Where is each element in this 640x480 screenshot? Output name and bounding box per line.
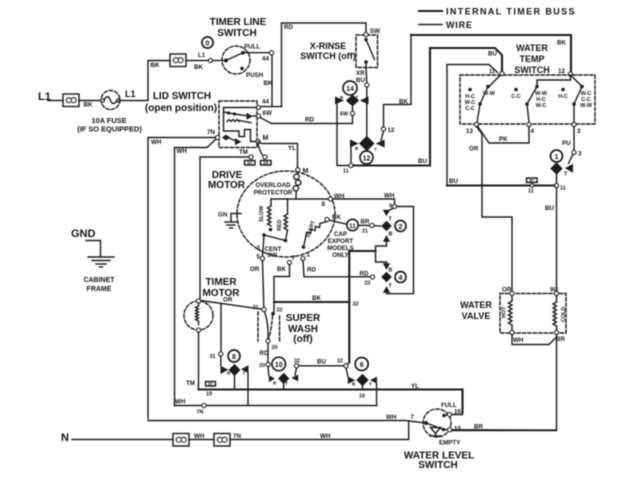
svg-text:SWITCH (off): SWITCH (off) (300, 51, 355, 61)
svg-text:12: 12 (388, 127, 395, 134)
regular winding (277, 199, 288, 242)
svg-text:TM: TM (186, 380, 195, 387)
svg-text:VALVE: VALVE (462, 311, 491, 321)
water valve (dashed box) (500, 294, 566, 334)
svg-text:MOTOR: MOTOR (202, 288, 240, 299)
svg-text:3: 3 (257, 245, 261, 252)
motor ground (218, 212, 241, 229)
svg-text:9U: 9U (550, 287, 558, 294)
svg-text:OVERLOAD: OVERLOAD (255, 182, 291, 189)
wire YL lid M to drive motor (258, 142, 298, 169)
connector 8 (221, 350, 249, 376)
wire PK 13 to 4 (478, 126, 530, 143)
svg-text:2: 2 (399, 224, 403, 231)
svg-text:(IF SO EQUIPPED): (IF SO EQUIPPED) (77, 125, 142, 134)
svg-text:12: 12 (363, 155, 371, 162)
svg-text:7: 7 (411, 414, 415, 421)
svg-text:B: B (389, 232, 393, 238)
svg-text:WIRE: WIRE (446, 20, 473, 30)
wire PU from 3 down to connector 1 (573, 127, 575, 151)
wire W-W contact feed to lower BU bus (447, 65, 498, 185)
timer motor (dashed circle with coil) (184, 299, 213, 332)
wire 44 down from timer line switch (271, 55, 273, 107)
svg-text:T: T (374, 147, 377, 152)
svg-text:INTERNAL TIMER BUSS: INTERNAL TIMER BUSS (446, 7, 576, 17)
svg-text:6: 6 (360, 362, 364, 369)
svg-text:RD: RD (260, 350, 269, 357)
svg-text:C-C: C-C (511, 94, 521, 100)
wire conn10 right to 32 circle (295, 368, 297, 375)
wire WH motor 8 to connector 2 (333, 199, 395, 205)
svg-text:TIMER LINE: TIMER LINE (210, 17, 267, 28)
svg-text:RED: RED (277, 220, 283, 231)
svg-text:YL: YL (411, 383, 419, 390)
wire stem down to 31 circle (220, 304, 222, 353)
wire WH from lid switch left down (148, 138, 216, 419)
svg-text:B: B (389, 268, 393, 274)
svg-text:WH: WH (175, 399, 186, 406)
svg-text:3: 3 (578, 151, 582, 158)
lid switch internal contacts (222, 108, 257, 146)
svg-text:COLD: COLD (561, 307, 567, 322)
svg-text:HOT: HOT (502, 306, 508, 318)
wire OR from 13 down to water valve (477, 127, 513, 292)
water valve OR terminal (510, 292, 514, 296)
svg-text:SLOW: SLOW (259, 205, 265, 222)
svg-text:BK: BK (399, 99, 408, 106)
svg-text:L1: L1 (125, 89, 136, 99)
svg-text:WATER: WATER (516, 43, 548, 53)
connector 1 (550, 150, 573, 178)
wire conn1 stem to 11 junction (556, 175, 558, 184)
svg-text:M: M (263, 135, 269, 142)
svg-text:FRAME: FRAME (87, 286, 112, 293)
svg-text:T: T (285, 381, 288, 386)
overload protector (254, 172, 301, 199)
motor 1 terminal (301, 257, 305, 261)
svg-text:20: 20 (259, 363, 265, 369)
wire BU down to water valve (556, 188, 558, 292)
legend internal timer buss (419, 7, 576, 17)
wire conn6 diamond stem to bus (362, 386, 364, 389)
temp switch section 1 (465, 85, 496, 135)
svg-text:WH: WH (320, 433, 331, 440)
svg-text:BK: BK (332, 214, 341, 221)
fuse F1 10A (dashed circle) (101, 91, 120, 110)
lid switch terminal 6W (257, 114, 261, 118)
svg-text:MOTOR: MOTOR (208, 180, 246, 191)
svg-text:6W: 6W (340, 111, 349, 117)
wire 31 circle to conn8 (220, 356, 222, 366)
wire conn14 left stem to BU bus (337, 105, 350, 166)
svg-text:BK: BK (264, 80, 273, 87)
lid switch terminal 7N (216, 136, 220, 140)
svg-text:4: 4 (399, 275, 403, 282)
cam code box 3S (261, 160, 272, 165)
svg-text:11: 11 (349, 223, 356, 230)
centrifugal switch (257, 233, 286, 260)
svg-text:0: 0 (206, 41, 210, 48)
svg-text:3S: 3S (263, 160, 269, 165)
wire BU 32 to 32 (299, 365, 345, 367)
slow winding (259, 199, 272, 231)
BU bus horizontal at y185 (447, 184, 555, 186)
N line continues to level switch (189, 439, 214, 441)
svg-text:5: 5 (257, 254, 261, 261)
legend wire (419, 20, 473, 30)
svg-text:W-C: W-C (536, 103, 547, 109)
wire L1 riser to timer line switch (119, 61, 170, 101)
BU bus from 11 junction up to water temp 11 (353, 48, 502, 166)
svg-text:OR: OR (223, 297, 233, 304)
svg-text:GND: GND (71, 228, 96, 240)
connector 14 (335, 81, 369, 106)
wire OR timer motor to super wash 31 (201, 301, 265, 310)
svg-text:W-W: W-W (580, 103, 593, 109)
svg-text:SWITCH: SWITCH (418, 460, 457, 471)
svg-text:EXPORT: EXPORT (328, 238, 354, 245)
svg-text:T: T (356, 95, 359, 100)
svg-text:SWITCH: SWITCH (514, 65, 550, 75)
cold valve solenoid (553, 296, 567, 335)
svg-text:SW: SW (370, 28, 380, 35)
svg-text:20: 20 (272, 345, 278, 351)
svg-text:GN: GN (218, 212, 228, 219)
wire RD super wash 20 down (267, 343, 269, 363)
inline connector plug before timer line switch (170, 54, 186, 67)
svg-text:7N: 7N (207, 129, 215, 136)
svg-text:CAP: CAP (334, 231, 347, 238)
wire 16 riser connecting (452, 413, 463, 415)
wire branch to BK riser (349, 251, 375, 363)
lid switch (dashed box) (219, 101, 257, 148)
wire BK riser to conn6 (347, 363, 349, 365)
wire RD from motor 1 to connector 4 (303, 261, 371, 277)
inline connector plug on L1 (63, 94, 79, 107)
svg-text:CABINET: CABINET (83, 277, 115, 284)
connector 12 (350, 136, 385, 164)
cam code box on TM bus (206, 381, 216, 386)
svg-text:WATER: WATER (460, 300, 492, 310)
lid switch terminal 44 (257, 106, 261, 110)
svg-text:31: 31 (210, 354, 216, 360)
svg-text:PK: PK (499, 136, 508, 143)
svg-text:RD: RD (305, 117, 314, 124)
svg-text:PULL: PULL (244, 44, 260, 51)
svg-text:OR: OR (469, 146, 479, 153)
svg-text:M: M (303, 168, 309, 175)
WH line 7N (175, 405, 377, 407)
svg-text:XR: XR (356, 70, 365, 77)
svg-text:44: 44 (262, 56, 269, 63)
svg-text:BU: BU (418, 158, 427, 165)
svg-text:11: 11 (528, 189, 534, 195)
svg-text:16: 16 (359, 394, 365, 400)
wire to L1 terminal (186, 60, 208, 62)
wire RD from lid 6W to conn14 (260, 116, 353, 124)
BK bus horizontal (274, 301, 349, 303)
GND symbol (71, 228, 114, 267)
svg-text:15: 15 (454, 426, 461, 433)
connector 6 (348, 358, 377, 387)
wire 32 circle into conn6 (346, 368, 348, 377)
wire conn6 T stem down to WH line (376, 384, 378, 406)
svg-text:TEMP: TEMP (519, 54, 544, 64)
svg-text:7: 7 (292, 255, 296, 262)
wire conn12 left stem to 11 junction (350, 148, 352, 164)
svg-text:X-RINSE: X-RINSE (310, 41, 347, 51)
svg-text:H-C: H-C (558, 94, 568, 100)
start winding (302, 218, 329, 249)
cam code box 3C on BU bus (527, 178, 538, 183)
svg-text:BK: BK (194, 64, 203, 71)
wire XR BU down to connector 12 (365, 68, 368, 83)
svg-text:8: 8 (232, 354, 236, 361)
svg-text:BU: BU (356, 77, 365, 84)
wire conn12 right to 12 terminal and BK riser (381, 131, 384, 141)
svg-text:10: 10 (275, 362, 283, 369)
svg-text:RD: RD (360, 271, 369, 278)
svg-text:BU: BU (317, 359, 326, 366)
svg-text:7N: 7N (197, 410, 204, 416)
wire 20 circle into conn10 (267, 367, 270, 376)
svg-text:3C: 3C (247, 160, 254, 165)
svg-text:BK: BK (277, 266, 286, 273)
svg-text:PROTECTOR: PROTECTOR (254, 190, 293, 197)
svg-text:6W: 6W (263, 110, 272, 117)
wire conn8 diamond stem to bus (234, 376, 236, 389)
svg-text:EMPTY: EMPTY (439, 440, 461, 447)
wire WH hot valve join (512, 335, 557, 345)
neutral line from lid WH to level switch pivot (148, 421, 426, 424)
connector 2 (381, 210, 406, 242)
svg-text:RD: RD (284, 24, 293, 31)
svg-text:14: 14 (346, 86, 354, 93)
svg-text:BU: BU (449, 178, 458, 185)
svg-text:19: 19 (206, 392, 212, 398)
connector 11 (capacitor plug) (347, 219, 358, 230)
svg-text:3: 3 (577, 128, 581, 135)
svg-text:RD: RD (307, 267, 316, 274)
svg-text:BU: BU (488, 51, 497, 58)
svg-text:PUSH: PUSH (246, 72, 264, 79)
wire right bracket conn2 top to conn4 bottom (387, 207, 414, 294)
svg-text:32: 32 (294, 359, 300, 365)
svg-text:LID SWITCH: LID SWITCH (153, 91, 211, 102)
svg-text:SUPER: SUPER (286, 313, 321, 324)
svg-text:WH: WH (513, 337, 524, 344)
svg-text:22: 22 (365, 281, 371, 287)
motor 7 terminal (288, 261, 292, 265)
wire BK to fuse (79, 100, 102, 102)
connector 0 (202, 37, 213, 48)
svg-text:L1: L1 (198, 52, 206, 59)
svg-text:11: 11 (560, 186, 566, 192)
wire 15 to BR (452, 429, 557, 431)
svg-text:SWITCH: SWITCH (217, 28, 256, 39)
inline connector plug on N (173, 434, 189, 447)
wire conn14 diamond stem to 6W circle (352, 106, 354, 111)
svg-text:ONLY: ONLY (332, 252, 349, 259)
svg-text:T: T (243, 371, 246, 376)
svg-text:WH: WH (151, 139, 162, 146)
svg-text:3C: 3C (529, 178, 536, 183)
x-rinse switch (dashed box) (356, 28, 380, 68)
svg-text:31: 31 (253, 305, 259, 311)
wire BK from motor 7 down to BK bus (274, 265, 290, 314)
wire zigzag conn2 B to conn4 B (376, 242, 387, 264)
connector 4 (381, 263, 406, 292)
svg-text:OR: OR (250, 266, 260, 273)
svg-text:32: 32 (337, 359, 343, 365)
svg-text:(open position): (open position) (145, 103, 217, 114)
svg-text:BK: BK (557, 40, 566, 47)
connector 10 (269, 357, 298, 386)
top BK bus to water temp 12 (411, 35, 571, 72)
timer bus TM to water level 16 (199, 390, 463, 413)
svg-text:21: 21 (362, 229, 368, 235)
svg-text:PU: PU (562, 140, 571, 147)
hot valve solenoid (502, 296, 515, 335)
wire 44 horizontal into lid switch (259, 106, 282, 108)
water level switch (dashed circle) (423, 402, 461, 447)
temp switch section 2 (511, 85, 548, 135)
water valve BU terminal (555, 292, 559, 296)
motor M terminal (296, 168, 300, 172)
wire OR from cent sw 5 down (263, 261, 264, 308)
timer line switch (dashed circle with blade) (209, 44, 274, 80)
lid switch terminal M (256, 140, 260, 144)
svg-text:8: 8 (322, 201, 326, 208)
wire L1 to connector (48, 100, 63, 102)
inline connector plug 2 on N (214, 434, 230, 447)
svg-text:11: 11 (343, 169, 349, 175)
svg-text:BK: BK (151, 62, 160, 69)
svg-text:BR: BR (361, 219, 370, 226)
svg-text:32: 32 (277, 308, 283, 314)
svg-text:WH: WH (386, 414, 397, 421)
svg-text:12: 12 (558, 68, 565, 75)
svg-text:BK: BK (312, 295, 321, 302)
svg-text:WH: WH (384, 193, 395, 200)
wire WH 7N diagonal down (175, 139, 217, 406)
svg-text:OR: OR (502, 287, 512, 294)
svg-text:(off): (off) (293, 334, 312, 345)
temp switch section 3 (558, 85, 593, 135)
svg-text:13: 13 (466, 128, 473, 135)
svg-text:FULL: FULL (441, 402, 457, 409)
wire conn8 T stem down to WH line (247, 373, 249, 405)
svg-text:TIMER: TIMER (205, 277, 237, 288)
motor internal bus (271, 198, 329, 200)
svg-text:32: 32 (353, 302, 359, 308)
svg-text:BK: BK (84, 102, 93, 109)
svg-text:YL: YL (288, 145, 296, 152)
wire BR cold valve down to level switch 15 (452, 335, 557, 431)
svg-text:1: 1 (307, 252, 311, 259)
svg-text:T: T (369, 382, 372, 387)
svg-text:C-C: C-C (465, 106, 475, 112)
wire timer motor bottom to bus (198, 332, 200, 390)
svg-text:44: 44 (262, 99, 269, 106)
svg-text:1: 1 (555, 154, 559, 161)
svg-text:BU: BU (545, 205, 554, 212)
wire BK BR motor 8 to conn2 via cap connector 11 (329, 220, 347, 224)
svg-text:SW: SW (267, 252, 277, 259)
drive motor (dashed circle) (237, 171, 335, 257)
super wash switch (253, 305, 283, 351)
svg-text:TM: TM (239, 149, 248, 156)
wire TM from lid M with inline disconnect (258, 144, 264, 157)
temp switch internal 12 feed (537, 76, 571, 85)
wire RD riser to x-rinse switch (282, 23, 367, 107)
wire conn10 diamond stem to bus (283, 384, 285, 389)
svg-text:3C: 3C (208, 381, 215, 386)
svg-text:WH: WH (177, 148, 188, 155)
svg-text:4: 4 (531, 128, 535, 135)
svg-text:N: N (61, 432, 69, 444)
cam code box 3C (245, 160, 256, 165)
water temp switch (dashed box) (460, 75, 595, 124)
